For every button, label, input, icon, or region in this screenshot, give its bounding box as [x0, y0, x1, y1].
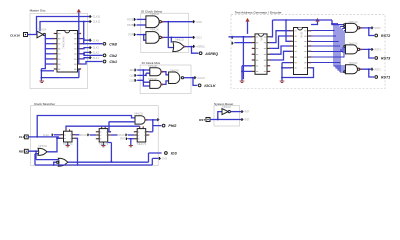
section frame Master Osc — [30, 9, 88, 89]
svg-text:RSTB: RSTB — [127, 18, 134, 21]
svg-text:IOCLK: IOCLK — [80, 134, 88, 137]
svg-text:ASREQ: ASREQ — [204, 52, 218, 56]
ground GND1 — [40, 81, 45, 83]
power VCC arrow — [77, 9, 81, 64]
pad ASREQ — [199, 52, 218, 56]
NAND gate U3A — [146, 16, 164, 28]
svg-text:RST: RST — [245, 111, 250, 114]
pin name labels U7 — [256, 37, 266, 72]
svg-text:RST3: RST3 — [381, 57, 390, 61]
gate part label U9A — [349, 21, 358, 24]
wire FF2 out — [108, 121, 118, 162]
section frame System Reset — [214, 102, 240, 126]
svg-text:CLK2: CLK2 — [93, 47, 100, 50]
svg-text:RST1: RST1 — [375, 68, 382, 71]
svg-text:IOCLK: IOCLK — [204, 84, 216, 88]
input connector RDY — [19, 149, 28, 153]
gate part label U6A — [170, 69, 179, 72]
gate part label U11A — [38, 145, 47, 148]
wire to NAND2 inputs — [137, 34, 146, 41]
pad Clk1 — [103, 60, 117, 64]
net tag CLK2 to FF1 — [43, 134, 60, 137]
svg-text:RST2: RST2 — [375, 27, 382, 30]
net tag RST to FF3 — [120, 138, 134, 141]
wire NAND1 out to tag — [163, 21, 193, 48]
net tag PHI2T — [157, 118, 160, 121]
wire mux inputs — [137, 69, 150, 86]
net tag CLK6 top2 — [90, 20, 101, 24]
svg-text:74HC74: 74HC74 — [137, 142, 147, 146]
flipflop FF1 74HC74 — [60, 129, 76, 146]
input tag IOSEL — [127, 18, 136, 21]
net tag CLK4 top1 — [90, 15, 101, 19]
input tag CLK1M — [129, 74, 137, 77]
wire U7 to U8 links — [270, 19, 291, 60]
section frame IO Clock Mux — [140, 61, 191, 94]
pad PHI2 — [162, 124, 176, 128]
svg-text:74HC04: 74HC04 — [38, 28, 47, 31]
svg-text:74HC32: 74HC32 — [175, 38, 184, 41]
NAND gate U3B — [146, 32, 164, 44]
gate part label U12A — [134, 113, 143, 116]
svg-text:74HC08: 74HC08 — [148, 78, 157, 81]
svg-text:74HC04: 74HC04 — [222, 106, 231, 109]
gate part label U5A — [148, 65, 157, 68]
net tag RSTO — [241, 118, 250, 122]
IC U8 74HC138 — [290, 28, 311, 75]
svg-text:IOS: IOS — [171, 152, 178, 156]
svg-text:RST1: RST1 — [381, 76, 390, 80]
svg-text:74HC00: 74HC00 — [150, 29, 159, 32]
wire to net tag row2 — [40, 21, 90, 45]
wire left pin bus stubs — [45, 39, 54, 64]
svg-text:74HC00: 74HC00 — [150, 13, 159, 16]
pad POR2 — [375, 34, 390, 38]
wire NAND2 out to tag — [163, 37, 193, 43]
svg-text:CLK10: CLK10 — [93, 16, 101, 19]
svg-text:Clock Stretcher: Clock Stretcher — [34, 102, 55, 106]
net tag RST2 — [371, 68, 381, 72]
svg-text:74HC10: 74HC10 — [349, 42, 358, 45]
pin name labels U1 — [58, 34, 77, 69]
net tag Q4 — [90, 39, 100, 43]
svg-text:SEL: SEL — [130, 69, 135, 72]
wire U8 left pins to ground — [281, 63, 290, 81]
OR gate U4A — [173, 42, 186, 52]
wire RST to tags — [210, 112, 241, 121]
wire inverter out — [230, 111, 241, 113]
section frame Test Address Generator / Decoder — [231, 11, 385, 89]
input connector CLK — [19, 135, 28, 139]
svg-text:74HC10: 74HC10 — [349, 21, 358, 24]
svg-text:IOCLK: IOCLK — [198, 77, 206, 80]
svg-text:74HC4040: 74HC4040 — [62, 36, 66, 49]
net tag Q7 — [90, 56, 100, 60]
NAND gate U6A — [169, 72, 184, 84]
wire RDY to OR1 — [28, 151, 38, 165]
svg-text:74161: 74161 — [299, 31, 303, 39]
net tag RST1 — [371, 48, 381, 52]
wire pin R5 to tag — [81, 52, 103, 55]
pin name labels U8 — [295, 31, 307, 68]
pad IOCLK — [198, 84, 216, 88]
net tag IOCLK — [194, 76, 205, 80]
wire to NAND1 A — [137, 18, 146, 20]
svg-text:74HC00: 74HC00 — [170, 69, 179, 72]
wire bottom return — [35, 158, 159, 165]
net tag D2 — [118, 134, 128, 137]
IC U1 74HC4040 — [54, 31, 82, 73]
input connector RST — [199, 118, 210, 122]
svg-text:74HC32: 74HC32 — [134, 113, 143, 116]
wire CLK to FF1 — [28, 116, 135, 139]
wire U9C out to pad — [360, 68, 374, 77]
pin name labels FF1 FF2 FF3 — [64, 132, 146, 139]
power VCC arrow U7 — [245, 18, 249, 34]
wire FF top row — [66, 126, 140, 129]
net tag Q6 — [90, 51, 100, 55]
svg-text:RST: RST — [245, 119, 250, 122]
wire to net tag row1 — [37, 17, 90, 35]
net tag IOC1 — [193, 20, 203, 24]
pad POR3 — [375, 57, 390, 61]
input tag TRST — [232, 42, 235, 45]
wire top distribution — [273, 20, 344, 25]
svg-text:RSTB: RSTB — [127, 24, 134, 27]
NOR gate U11B — [56, 158, 68, 166]
input connector CLK16 — [10, 33, 28, 38]
input tag CLKA — [127, 24, 136, 27]
svg-text:74HC32: 74HC32 — [38, 145, 47, 148]
wire tag to FF2 — [90, 134, 96, 136]
wire pin R3 to Clk8 pad — [81, 43, 103, 45]
wire tag to FF3 — [128, 134, 134, 136]
net tag /RST — [241, 110, 250, 114]
wire CLK16 to inverter — [28, 34, 38, 36]
wire inputs to U7 — [229, 36, 253, 79]
pad Clk8 — [103, 42, 117, 46]
svg-text:Test Address Generator / Decod: Test Address Generator / Decoder — [235, 11, 282, 15]
ground GND6 — [129, 138, 133, 147]
ground GND2 — [240, 81, 245, 83]
svg-text:ASREQ: ASREQ — [196, 45, 205, 48]
wire to ground — [41, 69, 81, 81]
ground GND4 — [66, 144, 70, 147]
svg-text:CLK8: CLK8 — [93, 39, 100, 42]
wire U9B out to pad — [360, 49, 374, 59]
svg-text:PHI2: PHI2 — [168, 124, 176, 128]
svg-text:CLK16: CLK16 — [10, 33, 20, 37]
section frame Clock Stretcher — [31, 102, 159, 166]
wire U9A out to pad — [360, 27, 374, 36]
wire OR1 out — [48, 137, 61, 151]
gate part label U10 — [222, 106, 231, 109]
wire FF3 out up — [149, 131, 153, 133]
pad Clk2 — [103, 54, 117, 58]
NAND gate U9C — [344, 65, 360, 74]
svg-text:CLK1: CLK1 — [93, 57, 100, 60]
wire OR2 input2 — [109, 121, 135, 123]
gate part label U4A — [175, 38, 184, 41]
AND gate U5B — [150, 80, 163, 88]
wire AND outs to NAND — [163, 72, 169, 85]
svg-text:RST3: RST3 — [375, 49, 382, 52]
wire NOR inputs — [35, 150, 59, 166]
svg-text:Master Osc: Master Osc — [30, 9, 46, 13]
wire NOR out along bottom — [68, 153, 162, 162]
net tag SYNC — [159, 157, 167, 161]
NAND gate U9B — [344, 45, 360, 54]
svg-text:CLK2: CLK2 — [93, 52, 100, 55]
wire NAND out to IOCLK — [184, 77, 198, 86]
input tag CLK2M — [129, 79, 137, 82]
svg-text:Clk2: Clk2 — [109, 54, 117, 58]
wire to NAND1 B — [137, 24, 146, 26]
wire U8 outputs to gate mesh — [311, 24, 346, 72]
svg-text:CLK2: CLK2 — [43, 134, 50, 137]
svg-text:IOC0: IOC0 — [196, 21, 202, 24]
wire U7 left pins to ground — [241, 66, 252, 81]
svg-text:Clk1: Clk1 — [109, 60, 117, 64]
wire pin R7 to Clk1 pad — [81, 62, 103, 65]
svg-text:POR: POR — [128, 34, 133, 37]
gate part label U3B — [150, 29, 159, 32]
NAND gate U9A — [344, 23, 360, 32]
inverter U10 — [222, 109, 230, 115]
gate part label U5B — [148, 78, 157, 81]
svg-text:CLK12: CLK12 — [93, 21, 101, 24]
svg-text:IOCLK: IOCLK — [118, 134, 126, 137]
wire pin R4 to tag — [81, 48, 90, 49]
net tag Q5 — [90, 46, 100, 50]
ground GND5 — [101, 144, 105, 147]
svg-text:SYN: SYN — [162, 158, 167, 161]
flipflop FF3 74HC74 — [134, 126, 150, 146]
OR gate U11A — [38, 148, 47, 155]
net tag RST0 — [371, 27, 381, 31]
wire U8 bottom loop — [281, 68, 313, 79]
gate part label U9B — [349, 42, 358, 45]
power VCC arrow U8 — [311, 18, 320, 25]
svg-text:Clk8: Clk8 — [109, 42, 117, 46]
AND gate U5A — [150, 68, 163, 76]
gate part label inverter U2A — [38, 28, 47, 31]
net tag IOC2 — [193, 36, 203, 40]
input tag MSEL — [130, 69, 137, 72]
svg-text:RST: RST — [120, 138, 125, 141]
svg-text:74HC08: 74HC08 — [148, 65, 157, 68]
flipflop FF2 74HC74 — [96, 126, 111, 146]
AND gate U12A PHI2 — [135, 116, 147, 124]
gate part label U3A — [150, 13, 159, 16]
svg-text:RST2: RST2 — [381, 34, 390, 38]
wire OR out to ASREQ — [185, 46, 198, 54]
wire FF1 feedback — [75, 138, 78, 166]
wire pin R2 to tag — [81, 39, 90, 41]
wire inverter output to left bus — [41, 35, 45, 69]
svg-text:74HC10: 74HC10 — [349, 62, 358, 65]
svg-text:IOC1: IOC1 — [196, 37, 202, 40]
input tag CLKB — [128, 33, 136, 36]
net tag ASR — [193, 45, 205, 49]
ground GND3 — [280, 81, 285, 83]
svg-text:CLK: CLK — [129, 79, 134, 82]
wire pin R6 to tag — [81, 58, 90, 59]
net tag D1 — [75, 134, 90, 137]
wire OR2 out to PHI2 — [147, 119, 162, 132]
svg-text:7490: 7490 — [259, 35, 263, 41]
IC U7 74HC74 — [252, 34, 271, 74]
section frame IO Clock Select — [141, 9, 189, 52]
inverter U2A — [37, 31, 46, 38]
pad POR1 — [375, 76, 390, 80]
pad IOS — [165, 152, 178, 156]
input tag TCLK — [232, 36, 235, 39]
gate part label U9C — [349, 62, 358, 65]
svg-text:CLK: CLK — [129, 74, 134, 77]
